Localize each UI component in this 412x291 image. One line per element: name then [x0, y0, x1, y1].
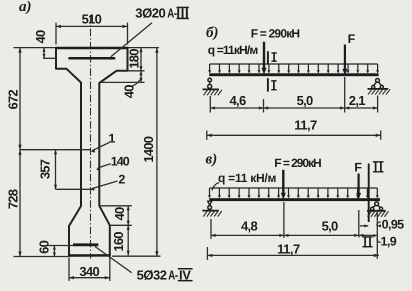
svg-text:180: 180 [127, 49, 142, 69]
dimension 40 bottom haunch [101, 206, 132, 256]
svg-text:40: 40 [33, 30, 48, 43]
svg-text:3Ø20: 3Ø20 [135, 5, 165, 20]
svg-text:5Ø32: 5Ø32 [137, 267, 167, 282]
svg-text:728: 728 [6, 189, 21, 209]
force F arrow right (b) [342, 32, 355, 76]
svg-text:F = 290кН: F = 290кН [251, 27, 300, 41]
section II lower label [364, 236, 366, 247]
svg-text:F: F [348, 32, 356, 46]
q leader (v) [212, 183, 219, 191]
svg-text:A-: A- [167, 5, 177, 20]
distributed load band (v) [208, 188, 379, 198]
dimension 357 [37, 150, 57, 190]
dimension 340 bottom width [69, 257, 110, 282]
dimension 180 right [100, 48, 159, 83]
svg-text:2: 2 [118, 173, 125, 187]
svg-text:5,0: 5,0 [297, 93, 313, 108]
section line II-II [369, 161, 384, 222]
svg-text:4,6: 4,6 [230, 93, 246, 108]
top rebar 3d20 [68, 57, 115, 60]
svg-text:F = 290кН: F = 290кН [274, 156, 321, 170]
left support (b): link with hinges [203, 78, 222, 95]
dimension 60 rebar cover [37, 240, 73, 256]
svg-text:1400: 1400 [141, 136, 156, 162]
svg-text:а): а) [19, 0, 32, 15]
section level line 2 [56, 188, 91, 190]
I-beam cross-section outline [56, 48, 128, 256]
svg-text:672: 672 [5, 90, 20, 110]
beam (v) [209, 198, 380, 201]
bottom rebar 5d32 [73, 243, 98, 246]
dimension 160 bottom flange [111, 225, 130, 255]
dimension 11,7 (v) [207, 241, 379, 259]
svg-text:11,7: 11,7 [277, 241, 300, 256]
dimension line 4,8 / 5,0 (v) [211, 202, 377, 259]
dimension 1400 overall height [112, 48, 161, 257]
svg-text:357: 357 [37, 159, 52, 179]
force F=290 arrow (v) [281, 170, 286, 200]
marker 1 leader [90, 131, 115, 152]
svg-text:2,1: 2,1 [349, 93, 365, 108]
centerline of beam section [90, 16, 92, 259]
beam bottom edge thick [68, 254, 110, 257]
svg-text:A-: A- [168, 267, 178, 282]
svg-text:б): б) [206, 25, 218, 41]
svg-text:160: 160 [111, 232, 126, 252]
svg-text:1: 1 [108, 131, 115, 145]
svg-text:60: 60 [37, 240, 52, 253]
beam top edge thick [55, 47, 128, 50]
dimension 40 top-left [33, 30, 57, 58]
svg-text:q =11кН/м: q =11кН/м [208, 43, 259, 57]
beam (b) [209, 73, 378, 76]
section level line 1 [20, 149, 91, 151]
dimension 11,7 (b) [207, 117, 381, 140]
marker 2 leader [90, 173, 126, 191]
svg-text:4,8: 4,8 [241, 218, 257, 233]
svg-text:1,9: 1,9 [381, 234, 397, 248]
rebar label 3d20 A-III with leader [111, 5, 189, 57]
web width label 140 [96, 155, 130, 171]
svg-text:510: 510 [82, 12, 102, 27]
rebar label 5d32 A-IV with leader [95, 247, 193, 283]
force F=290 arrow (b) [261, 42, 266, 75]
right support (b): triangle with rollers [368, 79, 391, 95]
dimension line 4,6 / 5,0 / 2,1 (b) [210, 77, 377, 113]
svg-text:40: 40 [122, 85, 137, 98]
svg-text:F: F [354, 161, 362, 175]
svg-text:140: 140 [111, 155, 130, 169]
svg-text:340: 340 [79, 264, 99, 279]
dimension 510 [56, 12, 128, 45]
svg-text:0,95: 0,95 [382, 218, 405, 232]
dimension 40 right haunch with leader [122, 80, 140, 98]
svg-text:40: 40 [112, 207, 127, 220]
distributed load band (b) [208, 64, 379, 73]
dimension 0,95 (v) [360, 218, 404, 232]
svg-text:5,0: 5,0 [322, 219, 338, 234]
svg-text:q =11 кН/м: q =11 кН/м [218, 171, 277, 185]
dimension 1,9 (v) [373, 234, 397, 248]
section line I-I [268, 51, 277, 91]
dimension line 672+728 left [14, 48, 69, 257]
svg-text:11,7: 11,7 [294, 117, 317, 132]
force F arrow right (v) [354, 161, 362, 200]
left support (v): triangle with hinge [202, 201, 221, 217]
right support (v): triangle with rollers [367, 202, 389, 217]
svg-text:в): в) [206, 151, 218, 167]
